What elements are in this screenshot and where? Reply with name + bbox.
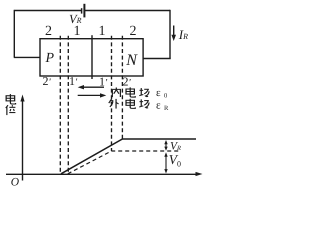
depletion boundary dashed line 2 (right) <box>121 36 123 139</box>
potential curve reverse bias (solid) <box>61 139 196 174</box>
junction middle solid line <box>91 35 93 79</box>
y axis <box>20 95 24 181</box>
svg-text:O: O <box>11 177 20 189</box>
external field arrow (points right) <box>78 93 107 97</box>
potential curve equilibrium (dashed) <box>68 151 181 174</box>
wire lower-left into P terminal <box>14 56 41 58</box>
wire lower-right from N terminal <box>143 58 171 60</box>
svg-text:2: 2 <box>45 24 52 39</box>
svg-text:1: 1 <box>99 24 106 39</box>
x axis <box>6 172 203 176</box>
depletion boundary dashed line 1 (right) <box>111 36 113 151</box>
V0 gap arrow (double headed) <box>164 152 167 173</box>
depletion boundary dashed line 2 (left) <box>59 36 61 174</box>
svg-text:2: 2 <box>130 24 137 39</box>
svg-text:R: R <box>164 105 169 112</box>
svg-text:VR: VR <box>170 141 181 153</box>
svg-text:V0: V0 <box>169 152 181 169</box>
VR gap arrow (double headed) <box>164 140 167 151</box>
svg-text:1: 1 <box>74 24 81 39</box>
internal field arrow (points left) <box>78 85 104 89</box>
potential axis label (dian wei) <box>6 94 15 104</box>
wire top-left from battery to left side <box>15 10 82 12</box>
depletion boundary dashed line 1 (left) <box>67 36 69 174</box>
svg-text:N: N <box>125 52 138 69</box>
text: wai dian chang (external electric field) <box>109 99 119 109</box>
wire top-right from battery to right side <box>85 10 170 12</box>
svg-text:2': 2' <box>123 75 132 89</box>
svg-text:1': 1' <box>99 74 108 88</box>
battery VR short plate <box>81 8 83 13</box>
current IR arrow <box>171 26 176 42</box>
svg-text:ε: ε <box>156 87 161 99</box>
semiconductor box <box>40 39 143 76</box>
svg-text:0: 0 <box>164 92 167 99</box>
svg-text:P: P <box>45 51 55 66</box>
svg-text:IR: IR <box>178 27 188 42</box>
wire right vertical <box>169 10 171 59</box>
svg-text:2': 2' <box>43 74 52 88</box>
battery VR long plate <box>83 4 85 18</box>
text: nei dian chang (internal electric field) <box>112 87 120 97</box>
svg-text:ε: ε <box>156 100 161 112</box>
wire left vertical <box>13 10 15 58</box>
svg-text:1': 1' <box>69 74 78 88</box>
